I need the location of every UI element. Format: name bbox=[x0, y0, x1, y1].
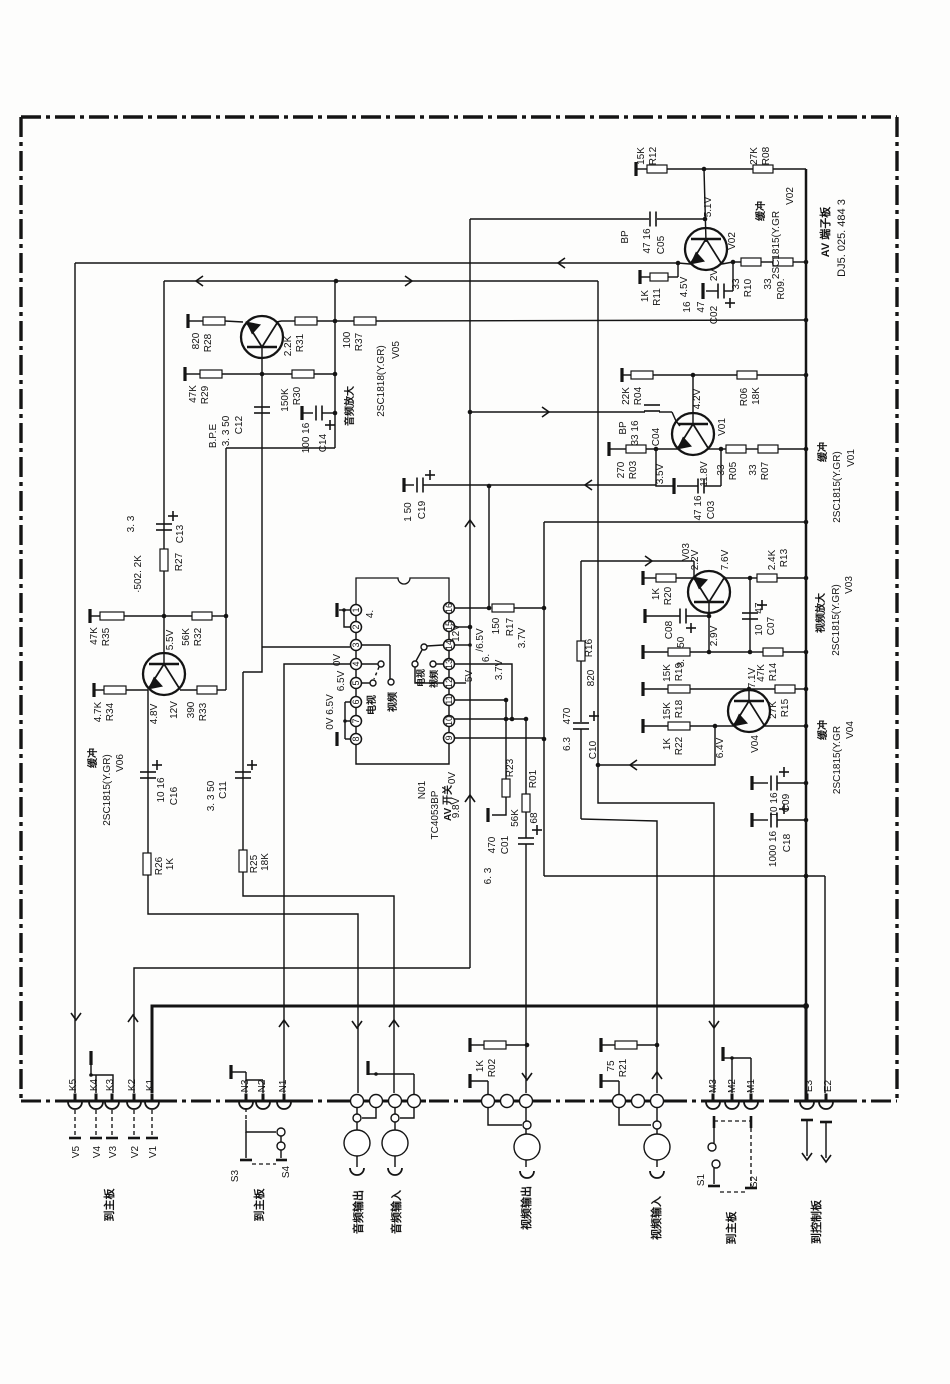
svg-text:C10: C10 bbox=[588, 740, 599, 759]
connector E3/E2 to control board bbox=[806, 1094, 809, 1102]
svg-text:7: 7 bbox=[351, 718, 361, 723]
svg-text:S1: S1 bbox=[696, 1173, 707, 1186]
resistor R05 33 bbox=[721, 448, 726, 450]
wire V03 collector to R13 bbox=[724, 577, 726, 578]
IC pins left 1-8 bbox=[351, 605, 362, 616]
resistor R23 56K bbox=[502, 779, 510, 797]
capacitor C10 470/6.3 bbox=[573, 722, 589, 724]
svg-text:75: 75 bbox=[606, 1060, 617, 1072]
bus +B right vertical bbox=[773, 168, 806, 170]
svg-text:270: 270 bbox=[616, 461, 627, 478]
resistor R15 27K bbox=[749, 688, 775, 690]
svg-text:10: 10 bbox=[444, 716, 454, 726]
svg-text:820: 820 bbox=[191, 332, 202, 349]
wire x470 long vertical (C05 tap to K2 wire) bbox=[469, 219, 471, 968]
svg-text:S4: S4 bbox=[281, 1165, 292, 1178]
capacitor C18 1000/16 + ground bbox=[750, 813, 753, 827]
M ground bracket bbox=[721, 1047, 724, 1061]
svg-text:R11: R11 bbox=[652, 288, 663, 306]
svg-text:1 50: 1 50 bbox=[403, 502, 414, 522]
wire V03 base feed from R16 rail bbox=[581, 560, 694, 562]
wire emitter V06 down to R26 bbox=[148, 690, 358, 1093]
pin12 stub bbox=[454, 682, 466, 684]
svg-text:R18: R18 bbox=[674, 699, 685, 718]
wire W1 emitter V02 to K5 bbox=[75, 262, 678, 264]
wire x489 to R17 node bbox=[488, 486, 490, 608]
resistor R16 820 bbox=[577, 641, 585, 661]
capacitor C12 3.3/50 bbox=[254, 406, 270, 408]
resistor R07 33 bbox=[758, 445, 778, 453]
resistor R03 270 bbox=[626, 445, 646, 453]
svg-text:7.6V: 7.6V bbox=[720, 549, 731, 570]
E arrows to control board bbox=[801, 1119, 813, 1122]
wire emitter node V02 bbox=[678, 263, 690, 264]
wire pins to R23 bbox=[505, 700, 507, 779]
svg-text:V04: V04 bbox=[845, 721, 856, 739]
resistor R21 75 bbox=[615, 1041, 637, 1049]
transistor V01 2SC1815 bbox=[692, 375, 694, 424]
svg-text:R09.: R09. bbox=[776, 278, 787, 299]
wire collector node V01 bbox=[709, 448, 721, 450]
svg-text:47 16: 47 16 bbox=[642, 228, 653, 253]
wire V04 collector to bus bbox=[765, 725, 806, 727]
V03 base stub bbox=[693, 561, 695, 578]
ground for R34 bbox=[92, 683, 95, 697]
svg-text:6.4V: 6.4V bbox=[715, 737, 726, 758]
svg-text:AV 端子板: AV 端子板 bbox=[818, 206, 832, 258]
transistor V03 2SC1815 bbox=[688, 571, 730, 613]
transistor V04 2SC1815 bbox=[748, 689, 750, 701]
ground for R22 bbox=[641, 719, 644, 733]
capacitor C02 47/16 bbox=[732, 262, 734, 291]
wire C10 to video-in line bbox=[581, 819, 657, 1093]
capacitor C07 47/10 bbox=[749, 578, 751, 652]
svg-text:2.4K: 2.4K bbox=[767, 549, 778, 570]
svg-text:470: 470 bbox=[562, 707, 573, 724]
capacitor C09 10/16 + ground bbox=[750, 776, 753, 790]
svg-text:C13: C13 bbox=[175, 524, 186, 543]
svg-text:缓冲: 缓冲 bbox=[816, 720, 829, 741]
wire W2 V05 rail to M3 bbox=[164, 280, 598, 282]
svg-text:0V 6.5V: 0V 6.5V bbox=[325, 694, 336, 730]
svg-text:R15: R15 bbox=[780, 698, 791, 717]
capacitor C03 47/16 + ground bbox=[656, 449, 674, 486]
svg-text:12: 12 bbox=[444, 678, 454, 688]
svg-text:C08: C08 bbox=[664, 620, 675, 639]
capacitor C13 3.3 bbox=[156, 523, 172, 525]
svg-text:N01: N01 bbox=[417, 780, 428, 799]
svg-text:56K: 56K bbox=[510, 809, 521, 827]
svg-text:2.2V: 2.2V bbox=[690, 549, 701, 570]
svg-text:2.9V: 2.9V bbox=[709, 625, 720, 646]
svg-text:缓冲: 缓冲 bbox=[754, 201, 767, 222]
svg-text:2V: 2V bbox=[709, 269, 720, 282]
svg-text:C04: C04 bbox=[651, 427, 662, 446]
svg-text:1000 16: 1000 16 bbox=[768, 830, 779, 867]
svg-text:12V: 12V bbox=[169, 701, 180, 719]
svg-text:7.1V: 7.1V bbox=[747, 667, 758, 688]
svg-text:R23: R23 bbox=[505, 758, 516, 777]
svg-text:V4: V4 bbox=[92, 1145, 103, 1158]
svg-text:视频: 视频 bbox=[428, 670, 439, 688]
svg-text:S3: S3 bbox=[230, 1169, 241, 1182]
resistor R01 68 bbox=[525, 719, 527, 794]
svg-text:6.: 6. bbox=[481, 654, 492, 662]
wire emitter V05 down bbox=[261, 347, 263, 647]
resistor R28 820 bbox=[203, 317, 225, 325]
svg-text:C14: C14 bbox=[318, 433, 329, 452]
resistor R14 47K bbox=[750, 651, 763, 653]
capacitor C04 33/16 BP bbox=[644, 404, 660, 406]
svg-text:E2: E2 bbox=[823, 1079, 834, 1092]
svg-text:3. 3 50: 3. 3 50 bbox=[206, 780, 217, 811]
svg-text:150K: 150K bbox=[280, 388, 291, 412]
N switch S3/S4 bbox=[245, 1108, 247, 1120]
svg-text:4.: 4. bbox=[365, 610, 376, 618]
video out ground bracket bbox=[468, 1074, 471, 1088]
resistor R34 4.7K bbox=[104, 686, 126, 694]
svg-text:16: 16 bbox=[682, 301, 693, 313]
svg-text:R06: R06 bbox=[739, 387, 750, 406]
wire x164 vertical bbox=[163, 281, 165, 664]
svg-text:K2: K2 bbox=[127, 1078, 138, 1091]
pins 6-7-8 bracket to ground bbox=[344, 702, 346, 739]
ground for R02 bbox=[468, 1038, 471, 1052]
wire K2 line bbox=[134, 968, 470, 1093]
svg-text:缓冲: 缓冲 bbox=[86, 748, 99, 769]
ground for R20 bbox=[641, 571, 644, 585]
svg-text:R29: R29 bbox=[200, 385, 211, 404]
svg-text:22K: 22K bbox=[621, 387, 632, 405]
svg-text:2SC1815(Y.GR): 2SC1815(Y.GR) bbox=[102, 754, 113, 826]
svg-text:4.8V: 4.8V bbox=[149, 703, 160, 724]
svg-text:820: 820 bbox=[586, 669, 597, 686]
N ground bracket bbox=[229, 1065, 232, 1079]
resistor R08 27K bbox=[753, 165, 773, 173]
svg-text:视频: 视频 bbox=[386, 692, 399, 712]
svg-text:V3: V3 bbox=[108, 1145, 119, 1158]
svg-text:V01: V01 bbox=[717, 418, 728, 436]
svg-text:·502. 2K: ·502. 2K bbox=[133, 555, 144, 593]
K ground bracket bbox=[89, 1051, 92, 1065]
ground for R12 bbox=[634, 162, 637, 176]
svg-text:R28: R28 bbox=[203, 333, 214, 352]
svg-text:R07: R07 bbox=[760, 461, 771, 480]
capacitor C19 1/50 + ground bbox=[402, 478, 405, 492]
svg-text:V02: V02 bbox=[785, 187, 796, 205]
svg-text:100: 100 bbox=[342, 331, 353, 348]
svg-text:1K: 1K bbox=[651, 588, 662, 601]
svg-text:3. 3 50: 3. 3 50 bbox=[221, 415, 232, 446]
resistor R19 15K bbox=[668, 648, 690, 656]
svg-text:1K: 1K bbox=[662, 738, 673, 751]
svg-text:R34: R34 bbox=[105, 702, 116, 721]
ground for R19 bbox=[641, 645, 644, 659]
capacitor C08 3.3/50 + ground bbox=[643, 609, 646, 623]
svg-text:音频放大: 音频放大 bbox=[343, 386, 356, 426]
svg-text:2.2K: 2.2K bbox=[283, 335, 294, 356]
pin9 wire bbox=[454, 737, 544, 739]
svg-text:47K: 47K bbox=[188, 385, 199, 403]
svg-text:2SC1815(Y.GR): 2SC1815(Y.GR) bbox=[831, 584, 842, 656]
svg-text:1: 1 bbox=[351, 607, 361, 612]
svg-text:/6.5V: /6.5V bbox=[475, 628, 486, 652]
svg-text:视频输入: 视频输入 bbox=[649, 1196, 663, 1240]
resistor R10 33 bbox=[733, 261, 741, 263]
IC pins right 16-9 bbox=[444, 603, 455, 614]
svg-text:15K: 15K bbox=[662, 702, 673, 720]
capacitor C16 10/16 bbox=[140, 771, 156, 773]
wire R25 to audio in line bbox=[243, 872, 394, 1093]
svg-text:3.7V: 3.7V bbox=[517, 627, 528, 648]
svg-text:K5: K5 bbox=[68, 1078, 79, 1091]
svg-text:V02: V02 bbox=[727, 232, 738, 250]
svg-text:音频输出: 音频输出 bbox=[351, 1190, 365, 1234]
svg-text:到主板: 到主板 bbox=[102, 1188, 116, 1222]
svg-text:3: 3 bbox=[351, 642, 361, 647]
svg-text:2SC1815(Y.GR: 2SC1815(Y.GR bbox=[771, 211, 782, 279]
connector M3-M1 bbox=[712, 1094, 715, 1102]
svg-text:16: 16 bbox=[444, 603, 454, 613]
resistor R11 1K + ground bbox=[638, 270, 641, 284]
svg-text:3.7V: 3.7V bbox=[494, 659, 505, 680]
svg-text:V1: V1 bbox=[148, 1145, 159, 1158]
svg-text:R13: R13 bbox=[779, 548, 790, 567]
svg-text:1K: 1K bbox=[475, 1060, 486, 1073]
svg-text:R04: R04 bbox=[633, 386, 644, 405]
svg-text:C16: C16 bbox=[169, 786, 180, 805]
svg-text:6. 3: 6. 3 bbox=[483, 867, 494, 884]
wire base feed W3 bbox=[470, 411, 645, 413]
resistor R04 22K bbox=[631, 371, 653, 379]
svg-text:K3: K3 bbox=[105, 1078, 116, 1091]
svg-text:K4: K4 bbox=[89, 1078, 100, 1091]
svg-text:C02: C02 bbox=[709, 305, 720, 324]
svg-text:V03: V03 bbox=[844, 576, 855, 594]
svg-text:C19: C19 bbox=[417, 500, 428, 519]
pin3 wire 0V bbox=[262, 646, 350, 648]
resistor R20 1K bbox=[656, 574, 676, 582]
svg-text:C07: C07 bbox=[766, 616, 777, 635]
ground for R28 bbox=[186, 314, 189, 328]
svg-text:R16: R16 bbox=[584, 638, 595, 657]
svg-text:150: 150 bbox=[491, 617, 502, 634]
svg-text:9: 9 bbox=[444, 735, 454, 740]
ground pin1/2 bracket bbox=[335, 603, 338, 617]
svg-text:100 16: 100 16 bbox=[301, 422, 312, 453]
svg-text:S2: S2 bbox=[749, 1175, 760, 1188]
wire R37 to bus bbox=[376, 320, 806, 321]
svg-text:DJ5. 025. 484 3: DJ5. 025. 484 3 bbox=[836, 199, 848, 277]
wire collector V02 bbox=[704, 169, 706, 242]
svg-text:R19: R19 bbox=[674, 662, 685, 681]
svg-text:5.5V: 5.5V bbox=[165, 629, 176, 650]
svg-text:C01: C01 bbox=[500, 835, 511, 854]
svg-text:R03: R03 bbox=[628, 460, 639, 479]
svg-text:B.P.E: B.P.E bbox=[208, 424, 219, 449]
ground for R18 bbox=[641, 682, 644, 696]
resistor R27 bbox=[160, 549, 168, 571]
svg-text:0V: 0V bbox=[447, 772, 458, 785]
svg-text:R26: R26 bbox=[154, 856, 165, 875]
svg-text:AV 开关: AV 开关 bbox=[441, 785, 454, 821]
svg-text:18K: 18K bbox=[751, 387, 762, 405]
capacitor C01 470/6.3 bbox=[525, 812, 527, 838]
connector K5-K1 to main board bbox=[74, 1094, 77, 1102]
svg-text:N1: N1 bbox=[278, 1079, 289, 1092]
svg-text:1K: 1K bbox=[165, 858, 176, 871]
resistor R22 1K bbox=[668, 722, 690, 730]
wire collector node V02 bbox=[722, 262, 733, 264]
svg-text:M3: M3 bbox=[708, 1079, 719, 1093]
resistor R13 2.4K bbox=[750, 577, 757, 579]
svg-text:56K: 56K bbox=[181, 628, 192, 646]
svg-text:47: 47 bbox=[754, 602, 765, 614]
svg-text:R10: R10 bbox=[743, 278, 754, 297]
svg-text:到主板: 到主板 bbox=[252, 1188, 266, 1222]
svg-text:视频输出: 视频输出 bbox=[519, 1186, 533, 1230]
svg-text:R12: R12 bbox=[648, 146, 659, 165]
svg-text:6.3: 6.3 bbox=[562, 737, 573, 751]
svg-text:R32: R32 bbox=[193, 627, 204, 646]
wire E2 vertical bbox=[824, 876, 826, 1093]
resistor R31 2.2K bbox=[281, 320, 295, 322]
svg-text:R08: R08 bbox=[761, 146, 772, 165]
pin13 wire bbox=[454, 664, 512, 719]
resistor R25 18K bbox=[239, 850, 247, 872]
svg-text:4: 4 bbox=[351, 661, 361, 666]
svg-text:V2: V2 bbox=[130, 1145, 141, 1158]
svg-text:电视: 电视 bbox=[365, 695, 378, 715]
svg-text:C11: C11 bbox=[218, 781, 229, 799]
svg-text:R14: R14 bbox=[768, 662, 779, 681]
svg-text:470: 470 bbox=[487, 836, 498, 853]
wire V03 emitter down bbox=[708, 602, 710, 652]
svg-text:8: 8 bbox=[351, 736, 361, 741]
capacitor C14 100/16 bbox=[301, 413, 303, 420]
wire pin3 to C11 bbox=[243, 647, 262, 672]
svg-text:R20: R20 bbox=[663, 586, 674, 605]
resistor R06 18K bbox=[737, 371, 757, 379]
svg-text:6.5V: 6.5V bbox=[336, 670, 347, 691]
svg-text:R02: R02 bbox=[487, 1058, 498, 1077]
wire C01 to video out line bbox=[525, 844, 527, 1093]
svg-text:V01: V01 bbox=[846, 449, 857, 467]
svg-text:4.5V: 4.5V bbox=[679, 276, 690, 297]
pin11 wire bbox=[454, 699, 506, 701]
pin16 wire to R17 bbox=[454, 607, 489, 609]
svg-text:68: 68 bbox=[529, 812, 540, 824]
svg-text:R35: R35 bbox=[101, 627, 112, 646]
svg-text:2SC1815(Y.GR): 2SC1815(Y.GR) bbox=[832, 451, 843, 523]
svg-text:4.2V: 4.2V bbox=[692, 388, 703, 409]
svg-text:15K: 15K bbox=[636, 147, 647, 165]
audio jack symbols bbox=[353, 1114, 361, 1122]
svg-text:47K: 47K bbox=[89, 627, 100, 645]
border frame (dash-dot) bbox=[21, 115, 897, 118]
wire x335 vertical bbox=[334, 281, 336, 448]
audio ground bracket bbox=[366, 1061, 369, 1075]
svg-text:R21: R21 bbox=[618, 1058, 629, 1077]
svg-text:12V: 12V bbox=[451, 624, 462, 642]
pin4 wire to N1 line bbox=[284, 664, 350, 1093]
svg-text:11: 11 bbox=[444, 695, 454, 704]
connector N3-N1 to main board bbox=[245, 1094, 248, 1102]
svg-text:5.1V: 5.1V bbox=[703, 196, 714, 217]
svg-text:3. 3: 3. 3 bbox=[126, 515, 137, 532]
svg-text:到控制板: 到控制板 bbox=[809, 1199, 823, 1244]
svg-text:K1: K1 bbox=[145, 1078, 156, 1091]
resistor R09 33 bbox=[773, 258, 793, 266]
svg-text:33: 33 bbox=[748, 464, 759, 476]
svg-text:V04: V04 bbox=[750, 735, 761, 753]
svg-text:33 16: 33 16 bbox=[630, 420, 641, 445]
svg-text:R31: R31 bbox=[295, 333, 306, 352]
svg-text:5: 5 bbox=[351, 680, 361, 685]
ground for R29 bbox=[183, 367, 186, 381]
wire x226 vertical bbox=[225, 448, 227, 690]
svg-text:2: 2 bbox=[351, 624, 361, 629]
svg-text:15K: 15K bbox=[662, 664, 673, 682]
svg-text:47: 47 bbox=[696, 301, 707, 313]
svg-text:视频放大: 视频放大 bbox=[814, 593, 827, 633]
svg-text:C03: C03 bbox=[706, 500, 717, 519]
resistor R33 390 bbox=[180, 689, 197, 691]
resistor R12 15K bbox=[647, 165, 667, 173]
svg-text:缓冲: 缓冲 bbox=[816, 442, 829, 463]
video input jack bbox=[613, 1095, 626, 1108]
svg-text:2SC1818(Y.GR): 2SC1818(Y.GR) bbox=[376, 345, 387, 417]
svg-text:6: 6 bbox=[351, 699, 361, 704]
svg-text:音频输入: 音频输入 bbox=[389, 1190, 403, 1234]
svg-text:18K: 18K bbox=[260, 853, 271, 871]
video in ground bracket bbox=[599, 1074, 602, 1088]
pin15 wire 12V bbox=[454, 626, 470, 628]
video in jack symbol bbox=[656, 1108, 658, 1167]
resistor R37 100 bbox=[354, 317, 376, 325]
wire x544 R17/E2 feed bbox=[543, 522, 545, 876]
svg-text:2SC1815(Y.GR: 2SC1815(Y.GR bbox=[832, 726, 843, 794]
ground for R21 bbox=[599, 1038, 602, 1052]
transistor V05 2SC1818 bbox=[241, 316, 283, 358]
svg-text:R05: R05 bbox=[728, 461, 739, 480]
svg-text:R25: R25 bbox=[249, 854, 260, 873]
svg-text:BP: BP bbox=[620, 230, 631, 244]
svg-text:R17: R17 bbox=[505, 617, 516, 636]
ground for R04 bbox=[620, 368, 623, 382]
transistor V06 2SC1815 bbox=[143, 653, 185, 695]
svg-text:BP: BP bbox=[618, 421, 629, 435]
resistor R26 1K bbox=[143, 853, 151, 875]
video output jack bbox=[482, 1095, 495, 1108]
capacitor C05 47/16 BP bbox=[470, 218, 649, 220]
svg-text:R33: R33 bbox=[198, 702, 209, 721]
svg-text:1K: 1K bbox=[640, 290, 651, 303]
main connector dash-dot line bbox=[21, 1100, 897, 1103]
resistor R29 47K bbox=[200, 370, 222, 378]
svg-text:R22: R22 bbox=[674, 736, 685, 755]
svg-text:V06: V06 bbox=[115, 754, 126, 772]
pin10 wire bbox=[454, 718, 526, 720]
capacitor C11 3.3/50 bbox=[242, 672, 244, 850]
svg-text:电视: 电视 bbox=[415, 669, 426, 687]
resistor R30 150K bbox=[262, 373, 292, 375]
wire V04 emitter out bbox=[598, 726, 715, 765]
pin5 switch contacts bbox=[361, 644, 390, 646]
svg-text:390: 390 bbox=[186, 701, 197, 718]
pin14 switch contacts bbox=[454, 644, 470, 646]
thick ground bus to K1/E3 bbox=[152, 1006, 806, 1093]
